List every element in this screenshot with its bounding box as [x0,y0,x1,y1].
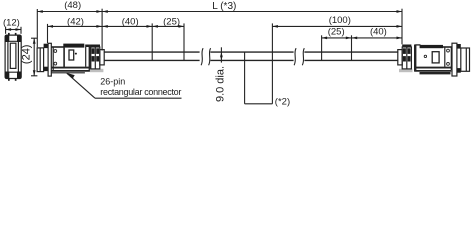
dim (12) left extension stub [5,27,7,34]
end view inner bottom line [5,71,21,73]
right boot cell 2 [408,48,411,54]
right plate line [450,47,452,70]
end view top nub right [15,33,17,35]
dimension row2 right line (100) [272,25,402,27]
cable top line segment 2 [210,51,293,53]
dim (12) line [6,29,21,31]
cable bottom line segment 2 [210,59,293,61]
connector end view outer face [5,35,21,78]
right slot [432,52,439,63]
right nose inner line [465,48,467,71]
arrow (42) left [48,25,54,28]
arrow row1 right at 101.9 [96,10,102,13]
right connector [398,43,470,76]
arrow row3 (40) right [397,37,403,40]
left boot grid outline [91,47,100,69]
arrow 9.0dia up [220,53,223,57]
arrow (25) left [152,25,158,28]
cable break 1 curve b [209,48,211,65]
leader arrowhead [67,73,75,79]
right lip bottom line [420,72,451,74]
right body top thin line [415,44,420,46]
left body right edge [89,45,91,72]
cable top line segment 3 [304,51,398,53]
extension line at x184 [183,23,185,61]
left boot taper [100,50,104,65]
extension line at left boot end x102.1 [101,9,103,51]
box left edge x244.6 [244,52,246,104]
left nose [37,48,44,72]
arrow row3 (40) left [352,37,358,40]
end view left wall line [7,41,9,72]
svg-text:(48): (48) [64,0,81,11]
box bottom line [245,103,273,105]
left connector [37,43,104,76]
left raised band (thick) [63,44,84,48]
left boot cell 1 [92,48,95,54]
right boot gray band [399,69,413,72]
svg-text:(40): (40) [370,26,387,37]
left body bottom thick line [51,67,90,69]
left screw top [54,50,57,53]
arrow (12) right [16,28,22,31]
left divider line [85,47,87,67]
arrow (24) down [33,70,36,76]
left boot cell 4 [96,56,99,61]
arrow row1 L right at 402 [397,10,403,13]
left small dot [75,53,77,55]
right nose [461,48,470,71]
right boot grid outline [402,47,411,69]
end view corner blob top-left [5,35,9,42]
end view right wall line [17,41,19,72]
svg-text:(25): (25) [328,26,345,37]
right flange [452,43,457,76]
svg-text:(40): (40) [122,17,139,28]
right body left edge [414,45,416,72]
extension line at left mating face x37.3 [36,9,38,47]
arrow row3 (25) left [322,37,328,40]
left latch bottom [44,67,49,71]
right boot cell 1 [403,48,406,54]
end view inner top line [5,40,21,42]
end view corner blob bottom-right [17,72,21,79]
arrow (40) right [147,25,153,28]
extension line / box right edge x272.4 [271,23,273,103]
right body top line [443,46,452,48]
cable break 2 curve b [302,48,304,65]
arrow row3 (25) right [346,37,352,40]
arrow (12) left [6,28,12,31]
arrow row1 left at 37.3 [37,10,43,13]
leader line to 26-pin label [67,73,95,98]
cable bottom line segment 1 [104,59,200,61]
dimension row1 line (48)+L [37,11,402,13]
arrow (25) right [179,25,185,28]
end view corner blob bottom-left [5,72,9,79]
extension line at x321.6 [321,35,323,61]
svg-text:(42): (42) [67,17,84,28]
svg-text:rectangular connector: rectangular connector [100,87,181,97]
svg-text:(100): (100) [329,15,351,26]
extension line at right boot end x402 [401,9,403,45]
left boot grid divider [94,47,96,69]
dim (24) vertical line [33,38,35,76]
left boot gray band [90,69,104,72]
right boot taper [398,50,402,65]
arrow (24) up [33,38,36,44]
cable break 2 curve a [294,48,296,65]
arrow 9.0dia down [220,56,223,60]
cable top line segment 1 [104,51,200,53]
dim (12) right extension stub [20,27,22,34]
right screw top [447,49,450,52]
left nose inner line [39,48,41,72]
left lip bottom line [51,72,85,74]
svg-text:(25): (25) [163,17,180,28]
left plate line [52,47,54,70]
right small dot [424,55,426,57]
end view corner blob top-right [17,35,21,42]
arrow (100) right [397,25,403,28]
arrow row1 L left at 102.3 [102,10,108,13]
left latch top [44,44,49,48]
left boot cell 2 [96,48,99,54]
right body bottom thick line [414,67,451,69]
9.0 dia measurement line [220,47,222,62]
svg-text:(*2): (*2) [275,97,290,108]
right latch top [457,44,461,49]
end view bottom nub right [15,78,17,80]
right dark top band [402,45,411,48]
arrow (100) left [272,25,278,28]
end view center slot [10,43,16,68]
right boot grid divider [406,47,408,69]
svg-text:(12): (12) [3,17,20,28]
right screw bottom [447,63,450,66]
left flange [48,43,51,76]
left dark top band [85,45,100,48]
left body bottom line 2 [51,70,90,72]
svg-text:9.0 dia.: 9.0 dia. [214,66,226,102]
dim (24) bottom tick [31,75,37,77]
dimension row3 line (25)(40) [322,37,402,39]
right latch bottom [457,68,461,73]
dimension row2 left line (42)(40)(25) [48,25,185,27]
svg-text:(24): (24) [21,45,33,65]
right body bottom line 2 [414,70,451,72]
left slot [69,50,74,60]
cable bottom line segment 3 [304,59,398,61]
arrow (42) right [96,25,102,28]
left body top line [51,46,64,48]
right boot cell 4 [408,56,411,61]
extension line at x152.2 [151,23,153,61]
dim (24) top tick [31,37,37,39]
svg-text:L (*3): L (*3) [212,1,236,12]
left screw bottom [54,62,57,65]
arrow (40) left [102,25,108,28]
left inner shell edge [63,48,65,68]
right boot cell 3 [403,56,406,61]
cable break 1 curve a [201,48,203,65]
extension line at x351.5 [351,35,353,61]
left boot cell 3 [92,56,95,61]
label underline [95,97,182,99]
svg-text:26-pin: 26-pin [100,77,125,87]
right raised band (thick) [420,45,443,48]
right divider line [444,47,446,67]
extension line at left flange x47.5 [47,24,49,43]
end view top nub left [8,33,10,35]
end view bottom nub left [8,78,10,80]
